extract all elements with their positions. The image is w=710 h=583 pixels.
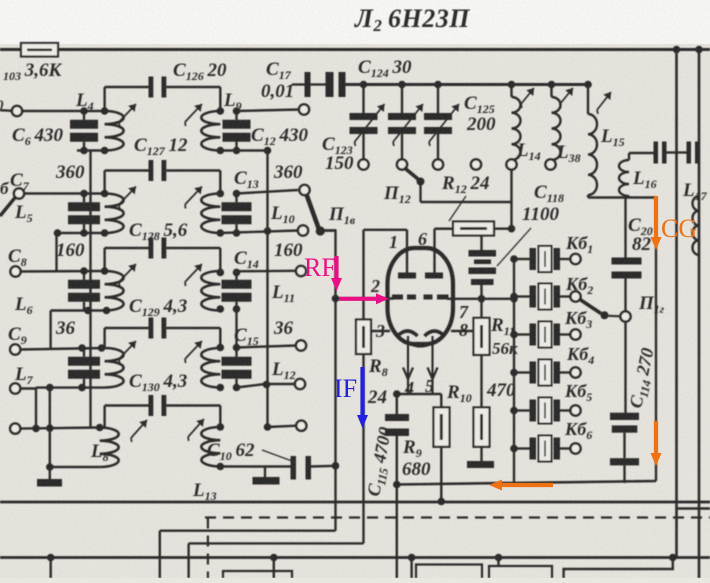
annotation RF right arrow: [339, 297, 376, 301]
terminal row2 right (switch P1v): [299, 185, 309, 195]
node row1 right-coil junction: [217, 107, 225, 115]
wire heater bottom: [397, 393, 442, 395]
resistor R103 3,6К on top bus: [21, 43, 58, 57]
trimmer arrow L8: [131, 420, 147, 438]
terminal row5 left: [10, 424, 20, 434]
wire routing IF line to lower left: [189, 542, 364, 544]
wire P1v node to vertical: [323, 229, 337, 232]
inductor L15: [584, 81, 592, 89]
ground bar left: [37, 479, 62, 487]
wire between C17/C124: [311, 83, 326, 85]
tube envelope U=L2 6N23P: [388, 248, 454, 344]
wire row1 left-cell bottom: [77, 149, 105, 151]
node R12 right: [508, 225, 516, 233]
trimmer arrow L10: [185, 187, 202, 205]
wire row3 right to terminal: [237, 270, 297, 273]
nodes: [80, 267, 88, 275]
inductor L12: [201, 348, 220, 387]
trimmer arrow L5: [119, 187, 136, 205]
node chain crossing: [264, 227, 272, 235]
wire top supply bus y=50: [0, 48, 710, 51]
inductor L8: [100, 428, 119, 467]
nodes row3 bottom right: [217, 305, 225, 313]
nodes: [217, 190, 225, 198]
resistor R10: [474, 407, 490, 446]
capacitor coupling plates: [149, 395, 154, 416]
wire row2-row3 left link: [55, 233, 57, 271]
cathode arc right: [425, 331, 445, 336]
trimmer capacitor stub x=402: [398, 81, 406, 89]
node row1 right cell bottom R: [233, 147, 241, 155]
wire row2 left: [24, 192, 105, 194]
nodes row3 bottom: [84, 307, 92, 315]
ground bar below R10: [467, 461, 494, 468]
wire row5 right-cell bottom: [220, 465, 290, 467]
node on chain: [263, 381, 271, 389]
trimmer arrow L12: [185, 341, 202, 359]
trimmer arrow: [429, 104, 459, 142]
switch node P12: [417, 178, 425, 186]
capacitor coupling plates: [149, 160, 154, 181]
wire cap to x=676: [667, 151, 677, 153]
trimmer arrow L4: [119, 104, 136, 122]
switch node P1v: [316, 226, 325, 235]
wire coupling stub left: [103, 328, 105, 348]
switch arm P12: [404, 168, 418, 180]
wire x=656 vertical (CG line): [655, 198, 657, 482]
nodes row2 bottom: [54, 229, 62, 237]
node: [478, 295, 486, 303]
switch arm P1v: [307, 195, 319, 229]
wire routing P1v line to lower left: [160, 530, 336, 532]
wire grid-left (pin2): [336, 297, 395, 299]
inductor L10: [201, 194, 220, 234]
capacitor right of x=676: [677, 151, 687, 153]
wire row4 left-cell bottom: [36, 386, 105, 388]
resistor R11: [480, 299, 482, 318]
capacitor C15 (in-cell): [235, 348, 237, 357]
capacitor C114: [624, 321, 626, 413]
trimmer capacitor Kb6: [510, 445, 518, 453]
terminal (switch contact) row1 left: [0, 109, 12, 112]
wire P12 to R12 node: [419, 182, 421, 203]
node: [217, 423, 225, 431]
wire row4 bottom right to mid terminal: [237, 384, 266, 388]
anode plate left: [398, 273, 416, 279]
terminal contact: [358, 159, 368, 169]
wire stubs below bus: [50, 558, 52, 579]
annotation CG left arrow: [502, 483, 553, 487]
switch node P1g: [601, 311, 609, 319]
wire bus y=502: [0, 501, 710, 504]
wire coupling stub left: [103, 171, 105, 194]
trimmer arrow L14: [521, 88, 534, 104]
wire row3-row4 left link: [49, 311, 51, 349]
trimmer capacitor Kb1: [510, 255, 518, 263]
node row1 right-cap junction: [233, 107, 241, 115]
junction dot top of x=676 wire: [673, 46, 681, 54]
terminal below L14: [506, 159, 516, 169]
resistor R8: [356, 320, 371, 355]
svg-text:RF: RF: [304, 253, 336, 282]
inductor L9: [201, 111, 220, 151]
wire cap to x=699: [698, 151, 701, 153]
capacitor C13 (in-cell): [235, 194, 237, 203]
capacitor C6 (in-cell): [83, 111, 85, 120]
wire left-cells chain vertical x=90.5: [89, 151, 91, 428]
wire cathode pin3 to R8: [370, 330, 391, 332]
nodes: [78, 344, 86, 352]
wire row1 right-cell bottom extends to chain: [220, 149, 267, 151]
wire far-right vertical x=699: [698, 50, 701, 579]
trimmer capacitor Kb5: [510, 407, 518, 415]
wire bus y=557: [0, 556, 710, 559]
callout line C10: [262, 450, 292, 461]
terminal row4 right: [296, 340, 306, 350]
wire bottom return loop y=483: [397, 481, 656, 485]
nodes row4 bottom right: [217, 384, 225, 392]
terminal row5 right: [296, 421, 306, 431]
inductor L17: [693, 196, 699, 255]
trimmer arrow L15: [597, 92, 611, 110]
resistor R9: [440, 394, 442, 407]
wire coupling stub left: [103, 87, 105, 111]
ground bar right: [253, 477, 280, 485]
trimmer arrow: [355, 104, 385, 142]
terminal row4 left: [10, 344, 20, 354]
component box bottom-middle2: [489, 566, 552, 578]
terminal contact: [433, 159, 443, 169]
wire row2 right-cell bottom to mid terminal: [220, 231, 298, 234]
svg-text:IF: IF: [334, 374, 357, 403]
terminal P1g rotor: [620, 311, 630, 321]
callout C118: [497, 228, 531, 266]
capacitor C118 stack: [480, 236, 482, 251]
wire coupling stub left: [103, 248, 105, 271]
capacitor C7 (in-cell): [83, 194, 85, 203]
trimmer capacitor Kb4: [510, 369, 518, 377]
wire row5 left-cell bottom: [50, 466, 100, 468]
node: [96, 424, 104, 432]
capacitor C10 output coupling plates: [291, 456, 297, 480]
component box bottom-left: [223, 571, 292, 578]
trimmer arrow L13: [188, 419, 204, 437]
trimmer capacitor stub x=438: [434, 81, 442, 89]
capacitor C115: [396, 394, 398, 414]
capacitor C20: [624, 198, 626, 258]
capacitor C17 plates: [305, 72, 311, 97]
capacitor coupling plates: [149, 238, 154, 259]
ground stub left: [49, 467, 51, 479]
wire right vertical x=676: [675, 50, 678, 558]
capacitor coupling plates: [149, 318, 154, 339]
inductor L13: [201, 427, 220, 466]
node row1 right cell bottom L: [217, 147, 225, 155]
wire terminal to row4 bottom: [20, 387, 36, 389]
wire row2 right to switch terminal: [237, 190, 299, 194]
heater lead pin4 with arrow: [407, 336, 409, 394]
wire cathode pin8 to R11: [451, 330, 473, 332]
wire coupling stub right: [166, 327, 220, 329]
terminal row3 left: [10, 266, 20, 276]
annotation RF down arrow: [334, 256, 338, 278]
wire anode tank bus y=84.5: [346, 83, 589, 86]
wire row5 right to terminal: [268, 426, 297, 427]
wire row5 left: [20, 428, 100, 429]
annotation IF down arrow: [360, 367, 364, 415]
resistor R12: [435, 227, 453, 229]
wire row1 right to terminal: [237, 110, 300, 112]
node row1 cell bottom right: [101, 147, 109, 155]
node bus dots: [47, 554, 55, 562]
capacitor C14 (in-cell): [235, 271, 237, 280]
node row1 cell bottom left: [80, 147, 88, 155]
inductor L14: [508, 81, 516, 89]
wire row3-row4 right link: [235, 309, 237, 348]
wire node to rotor: [609, 315, 622, 318]
terminal lone contact: [471, 159, 481, 169]
inductor L16: [619, 160, 629, 196]
terminal row1 right: [299, 104, 309, 114]
anode plate right: [425, 273, 443, 279]
wire row2 left-cell bottom: [57, 232, 105, 234]
wire link x=49.8 down to row5 bottom: [49, 388, 51, 467]
terminal row2 left: [14, 188, 24, 198]
node C115 top: [393, 390, 401, 398]
wire coupling stub left: [103, 406, 105, 428]
dashed boundary vertical: [207, 518, 209, 579]
node on P1v line: [332, 462, 340, 470]
terminal row4-bottom left: [10, 383, 20, 393]
wire pin1 anode loop: [406, 230, 408, 273]
wire right-cells chain vertical x=267.5: [266, 151, 268, 428]
cathode arc left: [398, 331, 418, 336]
capacitor C9 (in-cell): [83, 348, 85, 357]
nodes: [32, 425, 40, 433]
switch arm P1b partial at left edge: [0, 197, 16, 216]
inductor L4: [105, 111, 124, 151]
dashed boundary line: [205, 516, 710, 518]
annotation CG down arrow 2: [654, 421, 658, 453]
wire coupling stub right: [166, 404, 220, 406]
wire coupling stub right: [166, 247, 220, 249]
node R9 bottom: [438, 498, 446, 506]
terminal contact: [397, 159, 407, 169]
wire pin6 anode: [433, 229, 435, 273]
capacitor C12 (in-cell): [235, 111, 237, 120]
wire row4 right to terminal: [237, 346, 297, 348]
inductor L6: [105, 271, 124, 310]
wire short second line right: [677, 507, 710, 509]
node row1 left-cap junction: [80, 107, 88, 115]
trimmer arrow L9: [185, 104, 202, 122]
trimmer arrow L38: [560, 88, 573, 104]
switch arm P1g: [580, 300, 601, 314]
annotation CG down arrow 1: [654, 196, 658, 237]
wire L16 top to cap: [628, 153, 630, 160]
node: [46, 463, 54, 471]
wire row1 left: [22, 110, 105, 112]
trimmer capacitor Kb3: [510, 331, 518, 339]
wire C17 left stub: [292, 83, 305, 85]
wire R8 down (IF line): [362, 354, 364, 543]
inductor L5: [105, 194, 124, 234]
node: [80, 190, 88, 198]
trimmer capacitor stub x=363.5: [360, 81, 368, 89]
wire grid-right pin7: [447, 298, 514, 300]
nodes row4 bottom: [46, 384, 54, 392]
ground stub right: [264, 467, 266, 478]
terminal below L38: [545, 159, 555, 169]
node: [393, 481, 401, 489]
nodes: [217, 344, 225, 352]
junction dot top of x=699 wire: [695, 46, 703, 54]
trimmer arrow L7: [119, 341, 136, 359]
wire L14 terminal down to R12 node: [510, 169, 512, 229]
inductor L38: [548, 81, 556, 89]
wire L15/L16 bottom: [587, 195, 589, 198]
wire Kb bus vertical x=514: [513, 259, 515, 483]
wire coupling stub right: [166, 169, 220, 171]
nodes row2 bottom right: [217, 229, 225, 237]
wire P1v vertical down: [334, 231, 336, 531]
wire coupling stub right: [166, 86, 220, 88]
capacitor L16-output plates: [654, 142, 659, 164]
terminal row2-bottom right: [298, 225, 308, 235]
trimmer capacitor Kb2: [510, 293, 518, 301]
wire row4 left: [20, 348, 105, 350]
inductor L11: [201, 271, 220, 310]
nodes: [217, 269, 225, 277]
component box bottom-middle: [416, 565, 482, 579]
inductor L7: [105, 348, 124, 387]
capacitor C124 plate: [339, 72, 346, 97]
capacitor coupling plates: [149, 77, 154, 98]
callout R12: [449, 196, 466, 221]
capacitor C8 (in-cell): [83, 271, 85, 280]
terminal row4-bottom right: [295, 379, 305, 389]
node row1 left-coil junction: [101, 107, 109, 115]
wire L-route from right bus dot: [564, 558, 673, 579]
svg-text:CG: CG: [661, 214, 697, 243]
trimmer arrow L11: [185, 264, 202, 282]
wire row3 left: [20, 270, 105, 273]
node chain top: [264, 147, 272, 155]
terminal row3 right: [296, 266, 306, 276]
wire link x=36 down to row5: [35, 389, 37, 428]
heater arc bottom: [407, 342, 435, 347]
node grid tap: [332, 295, 340, 303]
wire row3 left-cell bottom: [51, 309, 105, 311]
wire C10 to P1v line: [311, 465, 336, 468]
grid dashes: [392, 295, 403, 300]
node: [217, 463, 225, 471]
trimmer arrow: [393, 104, 423, 142]
heater lead pin5 with arrow: [431, 336, 433, 394]
trimmer arrow L6: [119, 264, 136, 282]
